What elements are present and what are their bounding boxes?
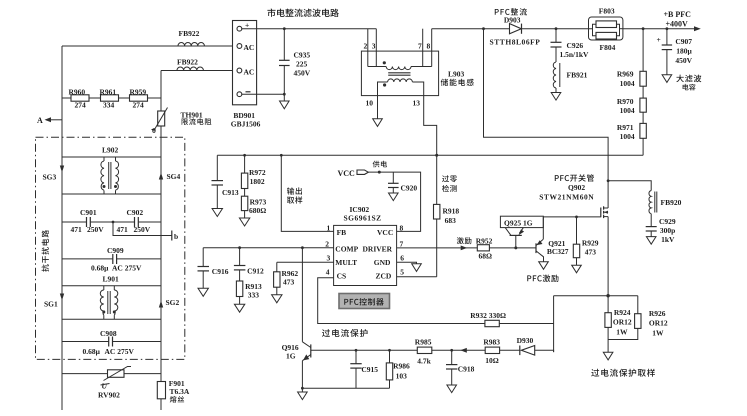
svg-text:R924: R924: [614, 308, 631, 317]
transformer L902 common-mode choke: [60, 146, 163, 195]
fuse F901 T6.3A 熔丝: [157, 379, 190, 403]
svg-text:4.7k: 4.7k: [417, 357, 431, 366]
svg-text:R926: R926: [649, 309, 666, 318]
svg-text:SG3: SG3: [43, 173, 57, 182]
capacitor C908 0.68μ AC 275V: [62, 329, 161, 356]
ground under C935: [280, 101, 290, 109]
ground under Q916: [298, 392, 308, 400]
L903 core: [388, 72, 410, 74]
svg-text:R985: R985: [415, 338, 432, 347]
ground under C929: [646, 237, 656, 245]
resistor R929 473: [573, 216, 599, 266]
svg-text:473: 473: [585, 247, 597, 256]
resistor R962 473: [274, 262, 299, 295]
resistor R924 OR12 1W: [605, 308, 632, 352]
svg-text:1004: 1004: [620, 79, 635, 88]
svg-text:683: 683: [445, 216, 457, 225]
capacitor C920: [388, 172, 417, 193]
svg-text:b: b: [174, 232, 178, 241]
svg-text:680Ω: 680Ω: [249, 206, 266, 215]
PFC控制器 label box: [339, 294, 390, 309]
ground under FB921: [551, 93, 561, 101]
svg-text:C935: C935: [294, 51, 311, 60]
resistor R959 274: [130, 88, 148, 110]
svg-text:FB: FB: [337, 228, 347, 237]
ground under Q921: [539, 262, 549, 270]
wire: right vertical bus V2: [160, 71, 162, 112]
wire: ZCD pin5 connection: [397, 276, 437, 278]
svg-text:6: 6: [400, 254, 404, 263]
svg-text:225: 225: [296, 60, 308, 69]
ground under R924 过电流保护取样: [591, 352, 655, 376]
svg-text:473: 473: [283, 277, 295, 286]
svg-text:1W: 1W: [616, 328, 628, 337]
svg-text:CS: CS: [337, 272, 347, 281]
wire: L903 pin2 pin3 verticals: [367, 29, 369, 67]
node A arrow: [37, 116, 62, 125]
svg-text:300p: 300p: [660, 226, 675, 235]
svg-text:68Ω: 68Ω: [479, 251, 493, 260]
ground under C916: [198, 288, 208, 296]
transistor Q925 symbol: [505, 228, 524, 250]
svg-text:2: 2: [364, 42, 368, 51]
resistor R918 683: [434, 204, 460, 225]
svg-text:C918: C918: [458, 365, 475, 374]
svg-text:C909: C909: [107, 246, 124, 255]
svg-text:VCC: VCC: [377, 228, 393, 237]
svg-text:471: 471: [117, 225, 129, 234]
svg-text:VCC: VCC: [338, 169, 356, 178]
ground under R962: [272, 295, 282, 303]
wire: bridge + output to L903 pin3: [242, 28, 376, 30]
svg-text:250V: 250V: [87, 225, 104, 234]
wire: L903 pin7 pin8 verticals: [422, 29, 424, 67]
svg-text:R971: R971: [617, 123, 634, 132]
ground under C907 大滤波电容: [662, 75, 701, 91]
resistor R961 334: [100, 88, 119, 110]
resistor R983 10Ω: [483, 337, 500, 365]
svg-text:1.5n/1kV: 1.5n/1kV: [560, 50, 590, 59]
svg-text:1802: 1802: [250, 177, 265, 186]
svg-text:C912: C912: [247, 266, 264, 275]
svg-text:1: 1: [327, 224, 331, 233]
capacitor C909 0.68μ AC 275V: [62, 246, 161, 273]
wire: L903 pin10 to ground: [378, 82, 388, 119]
svg-text:R959: R959: [130, 88, 147, 97]
wire: overcurrent sense line: [311, 348, 554, 353]
svg-text:TH901: TH901: [181, 110, 203, 119]
svg-text:RV902: RV902: [98, 391, 120, 400]
svg-text:103: 103: [396, 372, 408, 381]
ground under C920: [389, 193, 399, 201]
capacitor C913: [212, 155, 239, 208]
inductor L903 储能电感 box: [361, 42, 473, 108]
svg-text:OR12: OR12: [613, 318, 632, 327]
wire: right sense vertical: [553, 296, 555, 352]
capacitor C935 225 450V: [279, 27, 311, 101]
svg-text:AC: AC: [244, 43, 255, 52]
resistor R972 1802: [241, 154, 266, 189]
svg-text:4: 4: [326, 268, 330, 277]
svg-text:AC 275V: AC 275V: [105, 347, 135, 356]
svg-text:STTH8L06FP: STTH8L06FP: [490, 38, 541, 47]
svg-text:3: 3: [372, 42, 376, 51]
svg-text:R932 330Ω: R932 330Ω: [470, 311, 506, 320]
svg-text:C907: C907: [675, 37, 692, 46]
node VCC flag 供电: [338, 161, 421, 232]
capacitor C907 180μ 450V: [657, 27, 693, 75]
wire: FB sampling drop 输出取样: [280, 154, 334, 231]
svg-text:Q902: Q902: [568, 183, 585, 192]
svg-text:R973: R973: [250, 197, 267, 206]
svg-text:450V: 450V: [294, 69, 311, 78]
svg-text:FB922: FB922: [177, 58, 198, 67]
L903 bottom winding: [383, 79, 412, 87]
wire: resistor string line: [62, 97, 161, 99]
capacitor C902 471 250V: [113, 208, 161, 234]
transformer L901 common-mode choke: [60, 275, 163, 320]
wire: source down to sense node: [606, 217, 609, 313]
ground under C918: [447, 385, 457, 393]
wire: bottom return line: [301, 387, 390, 390]
svg-text:SG6961SZ: SG6961SZ: [344, 213, 382, 222]
resistor R952 68Ω: [476, 237, 493, 261]
inductor FB921: [553, 62, 587, 93]
svg-text:ZCD: ZCD: [376, 272, 392, 281]
svg-text:1004: 1004: [620, 106, 635, 115]
svg-text:C913: C913: [222, 188, 239, 197]
ground under R929: [572, 265, 582, 273]
diode D903 STTH8L06FP PFC整流: [490, 8, 541, 46]
svg-text:450V: 450V: [675, 56, 692, 65]
svg-text:0.68μ: 0.68μ: [83, 347, 101, 356]
wire: gate line: [543, 216, 601, 218]
svg-text:274: 274: [75, 101, 87, 110]
svg-text:C929: C929: [659, 217, 676, 226]
svg-text:+B PFC: +B PFC: [664, 10, 692, 19]
svg-text:7: 7: [418, 42, 422, 51]
svg-text:F804: F804: [600, 43, 616, 52]
wire: FB922 second line: [161, 70, 237, 72]
过电流保护 label: [322, 329, 368, 337]
resistor R926 OR12 1W: [608, 296, 668, 340]
svg-text:1G: 1G: [286, 352, 296, 361]
svg-text:T6.3A: T6.3A: [170, 387, 190, 396]
svg-text:C915: C915: [361, 365, 378, 374]
svg-text:F803: F803: [599, 7, 615, 16]
wire: COMP line pin2: [203, 247, 333, 249]
ground under L903 pin10: [373, 119, 383, 127]
svg-text:L901: L901: [103, 275, 120, 284]
svg-text:STW21NM60N: STW21NM60N: [539, 192, 594, 201]
resistor R985 4.7k: [415, 338, 432, 366]
wire: output sampling line: [217, 154, 643, 156]
svg-text:L903: L903: [448, 70, 465, 79]
svg-text:GND: GND: [374, 258, 391, 267]
resistor R986 103: [386, 349, 410, 388]
svg-text:A: A: [37, 116, 43, 125]
svg-text:471: 471: [71, 225, 83, 234]
transistor Q902 STW21NM60N PFC开关管 MOSFET: [539, 174, 608, 218]
ground under C913: [212, 209, 222, 217]
svg-text:θ: θ: [152, 126, 156, 135]
node b earth tap: [112, 221, 179, 241]
svg-text:GBJ1506: GBJ1506: [231, 120, 261, 129]
svg-text:R970: R970: [617, 97, 634, 106]
transistor Q916 1G: [282, 246, 311, 392]
wire: bridge - output to C935 node: [242, 93, 284, 95]
ground pin6 GND: [397, 262, 422, 271]
svg-text:R918: R918: [443, 207, 460, 216]
svg-text:R983: R983: [483, 337, 500, 346]
EMI filter dashed box 抗干扰电路: [36, 137, 185, 359]
svg-text:+: +: [657, 35, 661, 44]
svg-text:3: 3: [327, 254, 331, 263]
svg-text:10: 10: [366, 99, 374, 108]
capacitor C929 300p 1kV: [646, 217, 676, 244]
resistor R971 1004: [617, 112, 646, 155]
svg-text:274: 274: [133, 101, 145, 110]
svg-text:1kV: 1kV: [661, 235, 675, 244]
svg-text:SG4: SG4: [167, 172, 181, 181]
title 市电整流滤波电路: [267, 9, 338, 17]
svg-text:7: 7: [400, 240, 404, 249]
svg-text:R961: R961: [100, 88, 117, 97]
wire: DRIVER pin7 drive line 激励: [397, 237, 536, 250]
ground under R913: [234, 304, 244, 312]
svg-text:1004: 1004: [620, 132, 635, 141]
svg-text:+400V: +400V: [666, 20, 689, 29]
IC U1 IC902 SG6961SZ: [325, 205, 404, 286]
resistor R913 333: [236, 281, 262, 304]
wire: snubber branch to FB920: [607, 179, 652, 190]
thermistor TH901 限流电阻: [152, 108, 212, 136]
svg-text:OR12: OR12: [649, 319, 668, 328]
wire: D903 cathode to F803 box: [522, 28, 589, 30]
capacitor C918: [446, 349, 475, 385]
svg-text:R969: R969: [617, 70, 634, 79]
resistor R960 274: [69, 88, 90, 110]
diode D930: [517, 336, 535, 355]
svg-text:SG2: SG2: [166, 298, 180, 307]
resistor R970 1004: [617, 86, 646, 115]
svg-text:FB921: FB921: [567, 71, 588, 80]
svg-text:R952: R952: [476, 237, 493, 246]
svg-text:MULT: MULT: [335, 258, 357, 267]
resistor R973 680Ω: [241, 189, 266, 219]
svg-text:5: 5: [400, 268, 404, 277]
svg-text:FB920: FB920: [661, 198, 682, 207]
svg-text:R929: R929: [582, 239, 599, 248]
bridge rectifier BD901 GBJ1506: [231, 21, 261, 129]
wire: left vertical bus V1: [61, 46, 63, 410]
svg-text:C908: C908: [100, 329, 117, 338]
capacitor C915: [350, 349, 378, 388]
capacitor C901 471 250V: [62, 208, 113, 234]
transistor Q925 1G label box: [500, 216, 543, 227]
svg-text:10Ω: 10Ω: [485, 356, 499, 365]
svg-text:AC 275V: AC 275V: [112, 264, 142, 273]
svg-text:333: 333: [248, 291, 259, 300]
svg-text:U: U: [102, 382, 108, 391]
svg-text:0.68μ: 0.68μ: [91, 264, 109, 273]
svg-text:C920: C920: [401, 184, 418, 193]
svg-text:AC: AC: [244, 67, 255, 76]
transistor Q921 BC327: [536, 239, 569, 262]
wire: sense node line: [554, 295, 638, 297]
L903 top winding: [383, 61, 411, 69]
wire: pins7/8 bus to D903: [432, 28, 510, 30]
wire: MULT line pin3: [277, 261, 334, 263]
wire: +B PFC output with arrow: [623, 10, 701, 31]
inductor FB922 (second): [177, 58, 203, 71]
wire: gate node down to Q921 emitter: [542, 217, 544, 239]
wire: drain branch from D903 anode: [482, 27, 608, 208]
fuses F803 F804: [589, 7, 623, 53]
svg-text:180μ: 180μ: [676, 47, 692, 56]
svg-text:SG1: SG1: [44, 300, 58, 309]
inductor FB922 (top): [178, 29, 204, 46]
svg-text:R986: R986: [393, 362, 410, 371]
ground under R973: [239, 218, 249, 226]
svg-text:L902: L902: [102, 146, 119, 155]
svg-text:D930: D930: [517, 336, 534, 345]
svg-text:250V: 250V: [134, 225, 151, 234]
svg-text:Q925 1G: Q925 1G: [504, 218, 533, 227]
wire: CS pin4 to R932 line: [318, 278, 554, 324]
wire: ZCD vertical with 过零检测: [435, 154, 457, 192]
svg-text:C926: C926: [567, 41, 584, 50]
resistor R969 1004: [617, 27, 646, 88]
svg-text:8: 8: [427, 42, 431, 51]
svg-text:+: +: [245, 21, 249, 30]
resistor R932 330Ω: [470, 311, 506, 327]
wire: L903 pin13 down to ZCD vertical: [412, 82, 436, 277]
svg-text:D903: D903: [504, 16, 521, 25]
svg-text:R960: R960: [69, 88, 86, 97]
inductor FB920: [649, 191, 682, 227]
svg-text:334: 334: [103, 101, 115, 110]
capacitor C912: [234, 246, 264, 281]
svg-text:FB922: FB922: [179, 29, 200, 38]
svg-text:13: 13: [413, 99, 421, 108]
svg-text:COMP: COMP: [335, 244, 358, 253]
svg-text:1W: 1W: [652, 329, 664, 338]
varistor RV902: [62, 367, 161, 400]
svg-text:BC327: BC327: [547, 247, 569, 256]
capacitor C926 1.5n/1kV: [551, 27, 590, 62]
PFC激励 label: [527, 275, 558, 282]
svg-text:C916: C916: [212, 267, 229, 276]
svg-text:C901: C901: [80, 208, 97, 217]
wire: FB922 top line: [62, 45, 237, 47]
svg-text:R972: R972: [249, 168, 266, 177]
capacitor C916: [198, 248, 229, 289]
svg-text:DRIVER: DRIVER: [363, 244, 393, 253]
svg-text:C902: C902: [127, 208, 144, 217]
